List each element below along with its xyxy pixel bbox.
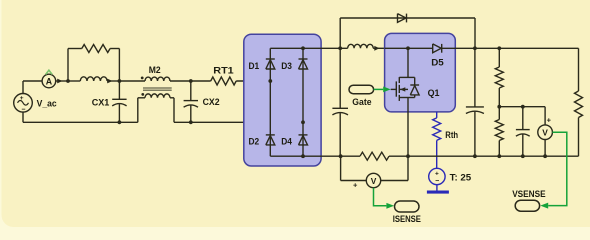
capacitor C out [466,48,484,156]
svg-text:V_ac: V_ac [37,97,57,108]
source T25 [429,168,445,185]
label V2 plus [547,116,552,125]
diode D5 [433,44,442,53]
node CX2 top [189,79,193,83]
node Q1 drain [406,46,410,50]
wire CX2 to bridge bottom [191,121,303,123]
resistor Rload [575,48,583,156]
capacitor CX2 [184,81,198,122]
isense arrow [386,203,394,209]
thermal ground [427,185,449,194]
inductor L2 [340,44,384,50]
svg-text:Rth: Rth [445,129,458,140]
label T25 [450,172,472,183]
wire branch left [67,49,69,82]
node C small top [521,105,525,109]
wire bridge top [270,47,340,49]
svg-text:VSENSE: VSENSE [512,188,545,199]
label D1 [249,60,260,71]
label V_ac [37,97,57,108]
source V_ac [14,94,33,114]
phase dot bottom [141,93,144,96]
resistor Rth [433,118,441,140]
wire A to node [56,79,68,84]
svg-text:RT1: RT1 [213,65,233,76]
capacitor CX1 [112,81,126,122]
inductor L line [68,77,119,84]
port Gate [349,85,374,94]
label Gate [352,96,371,107]
label D3 [281,60,292,71]
label V1 plus [353,181,358,190]
wire branch right [118,49,120,82]
node out1 top [473,46,477,50]
transistor Q1 [391,48,419,156]
node C small bottom [521,154,525,158]
node dc filter top [338,46,342,50]
node div top [497,46,501,50]
wire V_ac bottom [23,112,138,122]
svg-text:A: A [46,76,53,86]
wire box2 rail [385,47,433,49]
svg-text:V: V [371,176,377,186]
svg-text:+: + [20,95,24,102]
node div bottom [497,154,501,158]
label VSENSE [512,188,545,199]
node bridge bottom [301,154,305,158]
wire D5 out [442,47,475,49]
wire bridge bottom [270,155,340,157]
svg-text:−: − [435,178,439,185]
node V2 bottom [543,154,547,158]
node C out bottom [473,154,477,158]
svg-text:+: + [547,116,552,125]
label Q1 [428,87,440,98]
choke M2 top winding [145,77,211,81]
svg-text:+: + [353,181,358,190]
svg-text:Gate: Gate [352,96,371,107]
svg-text:CX1: CX1 [92,97,110,108]
diode D1 [266,59,275,69]
voltmeter V isense loop [341,156,408,180]
node C bulk bottom [339,154,343,158]
svg-text:D3: D3 [281,60,292,71]
label D2 [249,136,260,147]
subsystem bridge box [244,34,321,166]
wire dc bottom right [408,155,579,157]
resistor Rshunt [341,152,408,160]
capacitor C bulk [332,48,348,156]
bypass diode branch [340,18,475,48]
voltmeter V1 [366,173,380,187]
svg-text:Q1: Q1 [428,87,440,98]
svg-text:M2: M2 [149,64,161,75]
ammeter A1 [42,74,56,88]
svg-text:ISENSE: ISENSE [393,213,421,224]
node CX2 bottom [189,120,193,124]
diode D2 [266,135,275,145]
svg-text:+: + [435,170,439,177]
svg-text:D2: D2 [249,136,260,147]
port VSENSE [515,200,539,211]
diode D4 [299,135,308,145]
label D5 [431,56,444,67]
thermal wire 2 [436,140,438,168]
svg-text:D4: D4 [281,136,292,147]
thermal wire [436,112,438,118]
wire dc rail right [475,47,579,49]
resistor R damp [68,45,119,53]
isense signal wire [374,188,387,206]
label CX1 [92,97,110,108]
subsystem switch box [385,33,456,112]
phase dot top [141,77,144,80]
svg-text:T: 25: T: 25 [450,172,472,183]
node bridge top [301,46,305,50]
node CX1 bottom [118,120,122,124]
choke M2 bottom winding [138,94,191,122]
probe direction arrow [46,70,52,74]
svg-text:V: V [542,128,548,138]
resistor Rdiv1 [495,48,503,106]
label CX2 [203,96,220,107]
svg-text:CX2: CX2 [203,96,220,107]
vsense arrow [540,203,548,209]
label ISENSE [393,213,421,224]
wire V_ac top [23,81,42,94]
node bridge in1 [268,79,272,83]
node input junction [66,79,70,83]
node bridge in2 [301,120,305,124]
resistor Rdiv2 [495,107,503,157]
svg-text:D1: D1 [249,60,260,71]
port ISENSE [395,201,420,212]
resistor RT1 [211,77,271,85]
divider tap wire [499,106,545,108]
voltmeter V2 [538,107,553,157]
label Rth [445,129,458,140]
core M2 [143,87,172,90]
wire to M2 [119,80,145,82]
wire bridge left column [269,48,271,156]
diode D3 [299,59,308,69]
bypass diode [398,14,407,23]
gate signal wire [374,87,391,93]
label M2 [149,64,161,75]
svg-text:D5: D5 [431,56,444,67]
vsense signal wire [548,132,567,205]
capacitor C small [516,107,530,157]
wire bridge right column [302,48,304,156]
label D4 [281,136,292,147]
node div mid [497,105,501,109]
node shunt right [406,154,410,158]
label RT1 [213,65,233,76]
node CX1 top [118,79,122,83]
